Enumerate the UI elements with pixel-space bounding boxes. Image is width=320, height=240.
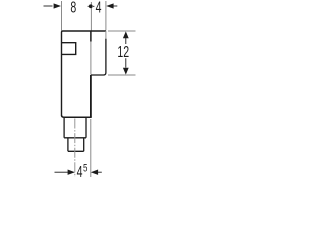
dimension 4: right arrow (outside, pointing left) xyxy=(106,3,113,8)
inner vertical edge hidden middle (thin) xyxy=(90,42,92,75)
dimension 12: vertical dimension line with arrows xyxy=(125,38,127,68)
extension line right (x=105.9 above body) xyxy=(105,1,107,31)
svg-text:4: 4 xyxy=(96,0,102,16)
rear housing right edge lower + bottom xyxy=(91,39,106,75)
supply connection notch (left flag) xyxy=(62,43,76,55)
extension line middle (x=91.4 above body) xyxy=(90,2,92,31)
dimension 4 label (top) xyxy=(96,0,102,16)
inner vertical edge upper dark (x=91.5) xyxy=(90,31,92,42)
inner vertical edge lower dark (tank right side) xyxy=(90,75,92,117)
dimension 4.5 label: 4 with superscript 5 xyxy=(77,163,83,181)
dimension 8 label xyxy=(70,0,76,16)
rear housing right edge upper (thin) xyxy=(105,31,107,39)
extension line left (x=61.5 above body) xyxy=(61,1,63,31)
dimension 12: top extension line xyxy=(108,30,136,32)
dimension 4.5: right arrow and tail xyxy=(91,170,98,175)
shared dot terminator between 8 and 4 xyxy=(88,5,95,7)
dimension 12 label xyxy=(117,44,129,58)
svg-text:4: 4 xyxy=(77,163,83,180)
outlet pipe stepped profile xyxy=(64,117,86,151)
outlet centerline (dash-dot) xyxy=(74,119,76,178)
svg-text:12: 12 xyxy=(117,43,129,61)
extension line below tank right edge xyxy=(90,119,92,177)
cistern main outline: left edge + top edge xyxy=(62,31,106,115)
svg-text:5: 5 xyxy=(83,162,87,175)
tank bottom edge xyxy=(62,115,92,117)
dimension 8: left arrow (outside, pointing right) xyxy=(44,5,53,7)
svg-text:8: 8 xyxy=(70,0,76,16)
dimension 12: bottom extension line xyxy=(108,74,136,76)
dimension 4.5: left tail and arrow xyxy=(55,171,68,173)
